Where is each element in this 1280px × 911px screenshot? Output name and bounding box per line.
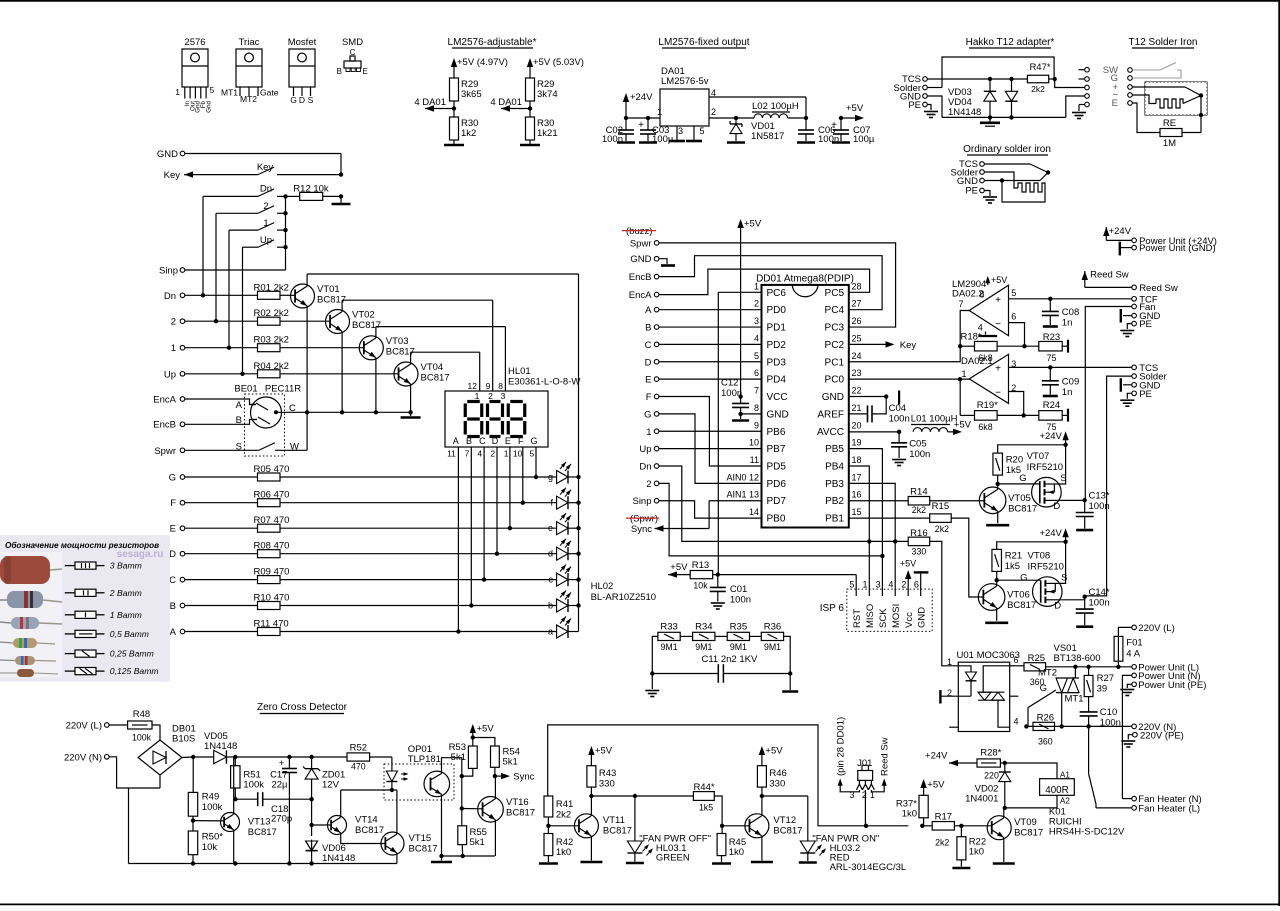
mosfet VT07 IRF5210 [1019, 451, 1066, 512]
svg-text:360: 360 [1038, 737, 1053, 747]
svg-text:6: 6 [1011, 312, 1016, 322]
svg-text:11: 11 [447, 449, 456, 459]
svg-text:PB3: PB3 [825, 479, 844, 490]
svg-text:ARL-3014EGC/3L: ARL-3014EGC/3L [830, 862, 907, 873]
resistor R03 2k2 [254, 335, 364, 352]
svg-text:BC817: BC817 [773, 826, 802, 837]
svg-text:Reed Sw: Reed Sw [1139, 283, 1178, 294]
wire R47 bypass loop [942, 57, 1054, 88]
svg-text:ISP 6: ISP 6 [820, 603, 845, 614]
page border top [0, 0, 1280, 2]
svg-text:4: 4 [477, 449, 482, 459]
section title T12 Solder Iron [1129, 37, 1198, 48]
svg-text:1: 1 [754, 281, 759, 291]
svg-text:+5V: +5V [670, 562, 688, 573]
resistor R28* 220 [977, 748, 1007, 781]
svg-text:C01: C01 [730, 584, 747, 595]
svg-text:F: F [646, 392, 652, 403]
svg-text:R14: R14 [910, 487, 927, 498]
wire bridge output right [182, 755, 195, 759]
svg-text:E: E [170, 524, 176, 535]
svg-text:PB5: PB5 [825, 444, 844, 455]
display HL01 labels [508, 366, 580, 388]
svg-text:VT02: VT02 [352, 310, 375, 321]
svg-text:5: 5 [700, 126, 705, 136]
transistor package drawing SMD (SOT-23) [337, 37, 368, 76]
resistor R26 360 [1033, 713, 1055, 747]
svg-text:4: 4 [1014, 717, 1019, 727]
legend photo area [0, 552, 62, 678]
resistor R09 470 [185, 567, 557, 584]
svg-text:MT1: MT1 [221, 88, 238, 98]
svg-text:MT2: MT2 [1038, 668, 1057, 679]
svg-text:IRF5210: IRF5210 [1027, 462, 1063, 473]
svg-text:S: S [1061, 573, 1067, 584]
terminal Solder (ordinary) [951, 168, 985, 179]
encoder BE01 dotted box [245, 394, 285, 456]
resistor R24 75 [1039, 400, 1068, 432]
resistor R50* 10k [188, 821, 223, 864]
svg-text:Vcc: Vcc [904, 612, 915, 628]
node output dots [804, 116, 843, 120]
wire PB4 to MISO [849, 466, 870, 583]
svg-text:Reed Sw: Reed Sw [880, 737, 891, 776]
svg-text:4 DA01: 4 DA01 [490, 97, 522, 108]
svg-text:+5V (4.97V): +5V (4.97V) [457, 57, 508, 68]
ground below R30 b [520, 144, 540, 147]
wire VT07 source to +24V [1057, 445, 1065, 484]
capacitor C10 100n [1080, 707, 1121, 729]
wire Solder to bypass [927, 87, 942, 89]
svg-text:c: c [549, 575, 554, 585]
stub U01 gate [1010, 695, 1019, 697]
svg-text:−: − [995, 388, 1001, 399]
resistor R22 1k0 [952, 826, 986, 868]
resistor R43 330 [587, 766, 616, 799]
svg-text:C: C [289, 403, 296, 414]
wire VT16 collector [494, 776, 496, 799]
svg-text:R33: R33 [660, 622, 677, 633]
display digit pin numbers [475, 391, 506, 401]
capacitor C05 100n [891, 432, 930, 460]
wire J01 pin3 arrow [836, 717, 860, 792]
resistor R10 470 [185, 593, 557, 610]
terminal Fan Heater (L) [1096, 804, 1200, 815]
svg-text:PC4: PC4 [825, 305, 845, 316]
transistor VT09 BC817 [987, 816, 1043, 840]
svg-text:2k2: 2k2 [935, 524, 949, 534]
power +5V arrow (MCU) [737, 219, 761, 397]
terminal 2 (center) [646, 479, 659, 490]
resistor R11 470 [185, 619, 557, 636]
connector J01 [857, 758, 872, 780]
svg-text:GND: GND [157, 149, 178, 160]
LED HL02 segment d [548, 539, 579, 561]
svg-text:Triac: Triac [239, 37, 260, 48]
resistor R21 1k5 [992, 540, 1068, 581]
wire R33 link [680, 635, 692, 637]
svg-text:C05: C05 [909, 439, 926, 450]
terminal Dn (center) [639, 462, 659, 473]
svg-text:16: 16 [852, 490, 862, 500]
wire display pin F/f [521, 447, 525, 505]
svg-text:B10S: B10S [172, 734, 195, 745]
wire VT05 emitter to ground [986, 511, 1009, 525]
svg-text:VT12: VT12 [773, 815, 796, 826]
resistor R19* 6k8 [960, 400, 998, 432]
wire sensor node down [1199, 96, 1203, 118]
svg-text:EncA: EncA [153, 395, 176, 406]
wire Solder to VT08 drain [1085, 376, 1132, 596]
ground op-side [431, 856, 452, 862]
svg-text:MISO: MISO [865, 604, 876, 628]
svg-text:HRS4H-S-DC12V: HRS4H-S-DC12V [1049, 827, 1125, 838]
optocoupler OP01 LED [386, 757, 397, 790]
ground below C06 [797, 141, 815, 144]
terminal F (center) [646, 392, 659, 403]
wire 4 DA01 arrow b [490, 97, 530, 112]
resistor R16 330 [908, 528, 930, 557]
svg-text:VT06: VT06 [1007, 590, 1030, 601]
svg-text:1k5: 1k5 [699, 803, 713, 813]
svg-text:SMD: SMD [342, 37, 363, 48]
op-amp DA02.1 LM2904 [961, 354, 1016, 403]
svg-text:GND: GND [916, 607, 927, 628]
svg-text:+: + [995, 364, 1001, 375]
wire VT04 collector [411, 352, 480, 364]
svg-text:+: + [638, 120, 644, 131]
svg-text:−: − [995, 319, 1001, 330]
svg-text:5: 5 [754, 351, 759, 361]
section title LM2576-fixed output [658, 37, 749, 48]
legend row 0,125 Ватт [65, 666, 159, 676]
svg-text:2: 2 [711, 107, 716, 117]
node divider b [528, 106, 532, 110]
svg-text:27: 27 [852, 299, 862, 309]
svg-text:100n: 100n [1089, 501, 1110, 512]
resistor R36 9M1 [761, 622, 783, 653]
terminal TCS (conn2) [1132, 363, 1158, 374]
wire VT12 emitter [751, 836, 773, 862]
wire F to PD5 [659, 397, 762, 467]
svg-text:PB1: PB1 [825, 514, 844, 525]
svg-text:1: 1 [475, 391, 480, 401]
svg-text:BC817: BC817 [248, 827, 277, 838]
optocoupler OP01 coupling arrows [401, 772, 409, 781]
svg-text:E: E [505, 436, 511, 446]
svg-text:TLP181: TLP181 [408, 754, 441, 765]
svg-text:R18*: R18* [961, 332, 982, 343]
svg-text:6k8: 6k8 [978, 422, 992, 432]
svg-text:Gate: Gate [260, 88, 279, 98]
wire AVCC pin20 [849, 430, 902, 434]
wire EncA to PC5 [659, 269, 870, 295]
svg-text:G: G [169, 473, 176, 484]
svg-text:a: a [548, 627, 553, 637]
resistor R29 3k65 [450, 78, 482, 109]
triac VS01 BT138-600 [1038, 643, 1101, 726]
encoder BE01 PEC11R labels [234, 384, 301, 395]
svg-text:BL-AR10Z2510: BL-AR10Z2510 [591, 592, 656, 603]
wire TCS diag (ordinary) [984, 164, 1050, 175]
optocoupler LED (U01) [966, 672, 977, 696]
svg-text:8: 8 [498, 381, 503, 391]
transistor VT03 BC817 [359, 336, 415, 360]
svg-text:D: D [1053, 501, 1060, 512]
transistor VT11 BC817 [574, 814, 632, 838]
wire +24V to pin1 [624, 116, 660, 120]
svg-text:BC817: BC817 [1008, 503, 1037, 514]
svg-text:sesaga.ru: sesaga.ru [117, 549, 164, 560]
svg-text:G: G [530, 436, 537, 446]
bridge DB01 B10S [138, 724, 196, 776]
resistor R34 9M1 [693, 622, 715, 653]
ground under diodes [980, 117, 1000, 126]
terminal 220V (N) [1132, 722, 1177, 733]
svg-text:2576: 2576 [184, 37, 205, 48]
label FAN PWR ON [812, 833, 906, 873]
svg-text:(pin 28 DD01): (pin 28 DD01) [836, 717, 847, 776]
svg-text:5: 5 [210, 85, 215, 95]
svg-text:10: 10 [749, 438, 759, 448]
svg-text:PD7: PD7 [767, 496, 787, 507]
svg-text:PEC11R: PEC11R [265, 384, 301, 395]
svg-text:R49: R49 [202, 792, 219, 803]
wire EncB to PC4 [659, 256, 882, 310]
svg-text:+24V: +24V [1039, 431, 1062, 442]
wire Sync to PD7 [709, 501, 761, 529]
resistor R48 100k [128, 709, 160, 743]
svg-text:(buzz): (buzz) [626, 226, 652, 237]
connector ISP 6 dotted box [820, 589, 932, 631]
svg-text:2: 2 [490, 449, 495, 459]
svg-text:14: 14 [749, 507, 759, 517]
wire VT08 source to +24V [1058, 542, 1065, 584]
wire phototriac bottom to pin4 [998, 700, 1019, 727]
svg-text:330: 330 [599, 779, 615, 790]
wire VT03 collector [376, 327, 506, 338]
svg-text:PB7: PB7 [767, 444, 786, 455]
svg-text:470: 470 [351, 762, 366, 772]
svg-text:R46: R46 [769, 768, 786, 779]
wire VT14 base node [309, 797, 331, 827]
resistor R30 1k2 [450, 109, 479, 145]
svg-text:5k1: 5k1 [470, 837, 485, 848]
svg-text:220V (L): 220V (L) [1138, 623, 1174, 634]
svg-text:Up: Up [164, 369, 176, 380]
mcu DD01 Atmega8(PDIP) [756, 274, 854, 528]
terminal Spwr (left) [154, 446, 258, 457]
terminal EncB (left) [153, 420, 257, 431]
LED HL03.2 red [799, 796, 826, 863]
svg-text:100n: 100n [1089, 598, 1110, 609]
mosfet VT08 IRF5210 [1020, 551, 1067, 612]
label K01 RUICHI [1049, 807, 1125, 838]
optocoupler OP01 TLP181 labels [408, 744, 441, 765]
svg-text:PC6: PC6 [767, 288, 787, 299]
svg-text:PE: PE [1139, 389, 1152, 400]
relay K01 coil 400R [1040, 771, 1075, 806]
svg-text:C: C [169, 575, 176, 586]
terminal Spwr (center) [630, 238, 659, 249]
svg-text:EncA: EncA [629, 290, 652, 301]
wire PB1 to R15 [849, 517, 930, 519]
switch 2 [216, 201, 288, 216]
svg-text:L02 100µH: L02 100µH [752, 101, 799, 112]
switch Up [243, 235, 288, 249]
svg-text:MT1: MT1 [1065, 694, 1084, 705]
wire VT03 emitter [374, 358, 378, 415]
power +5V arrow (R53) [470, 724, 495, 738]
svg-text:D: D [299, 95, 305, 105]
wire VT09 collector [1003, 808, 1005, 818]
svg-text:J01: J01 [857, 758, 872, 769]
svg-text:VT09: VT09 [1014, 817, 1037, 828]
svg-text:0,125 Ватт: 0,125 Ватт [110, 666, 159, 676]
wire E to RE [1132, 103, 1160, 133]
svg-text:C: C [479, 436, 486, 446]
terminal Dn (left) [164, 291, 258, 302]
svg-text:MOSI: MOSI [891, 604, 902, 628]
switch Key [257, 162, 343, 177]
section title Hakko T12 adapter* [966, 37, 1055, 48]
legend row 3 Ватт [65, 561, 142, 571]
power +24V arrow (DA01 input) [623, 92, 653, 118]
wire Fan to VT07 drain [1085, 307, 1132, 501]
stub U01 pin3 [949, 726, 958, 728]
capacitor C08 1n [1042, 299, 1079, 329]
svg-text:E: E [1112, 98, 1118, 109]
svg-text:23: 23 [852, 368, 862, 378]
terminal 220V (L) [66, 721, 128, 732]
LED HL02 segment a [548, 617, 579, 639]
LED HL03.1 green [626, 796, 653, 863]
svg-text:HL02: HL02 [591, 581, 614, 592]
svg-text:1: 1 [504, 449, 509, 459]
photo resistor 1W [0, 617, 62, 629]
svg-text:U01 MOC3063: U01 MOC3063 [957, 650, 1020, 661]
capacitor C12 100n [721, 378, 762, 421]
connector pins (adapter right) [1079, 67, 1090, 106]
terminal Power Unit (N) [1122, 671, 1200, 799]
wire PC0 to opamp out [849, 377, 969, 381]
svg-text:Fan Heater (L): Fan Heater (L) [1138, 804, 1200, 815]
power +5V arrow (R43) [588, 746, 613, 766]
resistor R17 2k2 [922, 812, 961, 848]
svg-text:A: A [453, 436, 459, 446]
wire DA02.1 output down to R19 [959, 379, 961, 415]
wire VT02 emitter [340, 331, 344, 414]
terminal A (left) [170, 627, 185, 638]
svg-text:3: 3 [754, 316, 759, 326]
terminal D (center) [645, 357, 762, 368]
wire R35 link [750, 635, 762, 637]
page border right [1278, 0, 1280, 906]
svg-text:A: A [170, 627, 177, 638]
connector ISP pins and labels [849, 580, 927, 629]
resistor R27 39 [1084, 667, 1114, 712]
wire VT01 emitter [305, 306, 309, 415]
svg-text:B: B [466, 436, 472, 446]
svg-text:RE: RE [1163, 118, 1176, 129]
resistor R18* 6k8 [960, 332, 997, 364]
svg-text:VT08: VT08 [1028, 551, 1051, 562]
resistor R44* 1k5 [635, 782, 715, 813]
legend panel title [5, 540, 159, 550]
svg-text:+24V: +24V [1109, 226, 1132, 237]
heater element ordinary [984, 172, 1045, 202]
wire VT09 base row [920, 824, 992, 828]
svg-text:100µ: 100µ [853, 134, 875, 145]
terminal GND (left) [157, 149, 185, 160]
resistor R25 360 [1010, 653, 1046, 687]
svg-text:220V (N): 220V (N) [64, 752, 102, 763]
wire common emitter bus [276, 411, 411, 413]
diode VD06 1N4148 [305, 836, 355, 864]
capacitor C18 270p [235, 792, 311, 824]
svg-text:9M1: 9M1 [764, 642, 781, 652]
terminal GND (ordinary) [957, 176, 984, 187]
resistor R29 3k74 [526, 78, 558, 109]
resistor R02 2k2 [254, 308, 331, 325]
svg-text:2: 2 [488, 391, 493, 401]
svg-text:24: 24 [852, 351, 862, 361]
wire VT08 drain [1058, 595, 1087, 600]
svg-text:+5V: +5V [595, 746, 613, 757]
svg-text:+5V (5.03V): +5V (5.03V) [533, 57, 584, 68]
terminal PE (conn1) [1120, 319, 1152, 336]
terminal 1 (left) [171, 343, 258, 354]
power +24V arrow (Power Unit) [1103, 226, 1132, 240]
capacitor C04 100n (AREF) [849, 397, 910, 425]
wire R44 to VT12 base [714, 796, 749, 828]
encoder pin A [236, 400, 256, 411]
svg-text:3: 3 [678, 126, 683, 136]
svg-text:S: S [308, 95, 314, 105]
diode VD04 1N4148 [1005, 79, 1017, 117]
svg-text:Spwr: Spwr [630, 238, 652, 249]
svg-text:2 Ватт: 2 Ватт [109, 588, 142, 598]
svg-text:1: 1 [961, 369, 966, 379]
display digit 8 (1) [465, 402, 482, 437]
transistor package drawing Triac (TO-220) [221, 37, 279, 104]
svg-text:PC0: PC0 [825, 375, 845, 386]
wire HL02 cathode bus [576, 274, 580, 632]
wire VT15 emitter [396, 853, 398, 864]
wire PE to ground (adapter) [924, 105, 938, 118]
label (buzz) crossed out [622, 226, 656, 237]
transistor VT16 BC817 [462, 797, 535, 823]
regulator DA01 LM2576-5v [657, 66, 716, 136]
capacitor C02 100n [602, 118, 634, 145]
capacitor C14* 100n [1076, 587, 1110, 625]
wire relay coil A2 [1005, 795, 1057, 808]
svg-text:BC817: BC817 [1014, 828, 1043, 839]
svg-text:8: 8 [979, 290, 984, 300]
svg-text:Up: Up [639, 444, 651, 455]
svg-text:R44*: R44* [693, 782, 714, 793]
svg-text:1: 1 [646, 427, 651, 438]
wire Sync arrow out [495, 772, 535, 783]
wire VT16 base vertical [460, 776, 464, 826]
svg-text:+: + [995, 295, 1001, 306]
svg-text:R27: R27 [1097, 673, 1114, 684]
svg-text:e: e [548, 523, 553, 533]
svg-text:1: 1 [862, 580, 867, 590]
wire mains top line [1046, 665, 1132, 669]
svg-text:1N4001: 1N4001 [965, 794, 998, 805]
optocoupler U01 pin2 [940, 688, 971, 704]
